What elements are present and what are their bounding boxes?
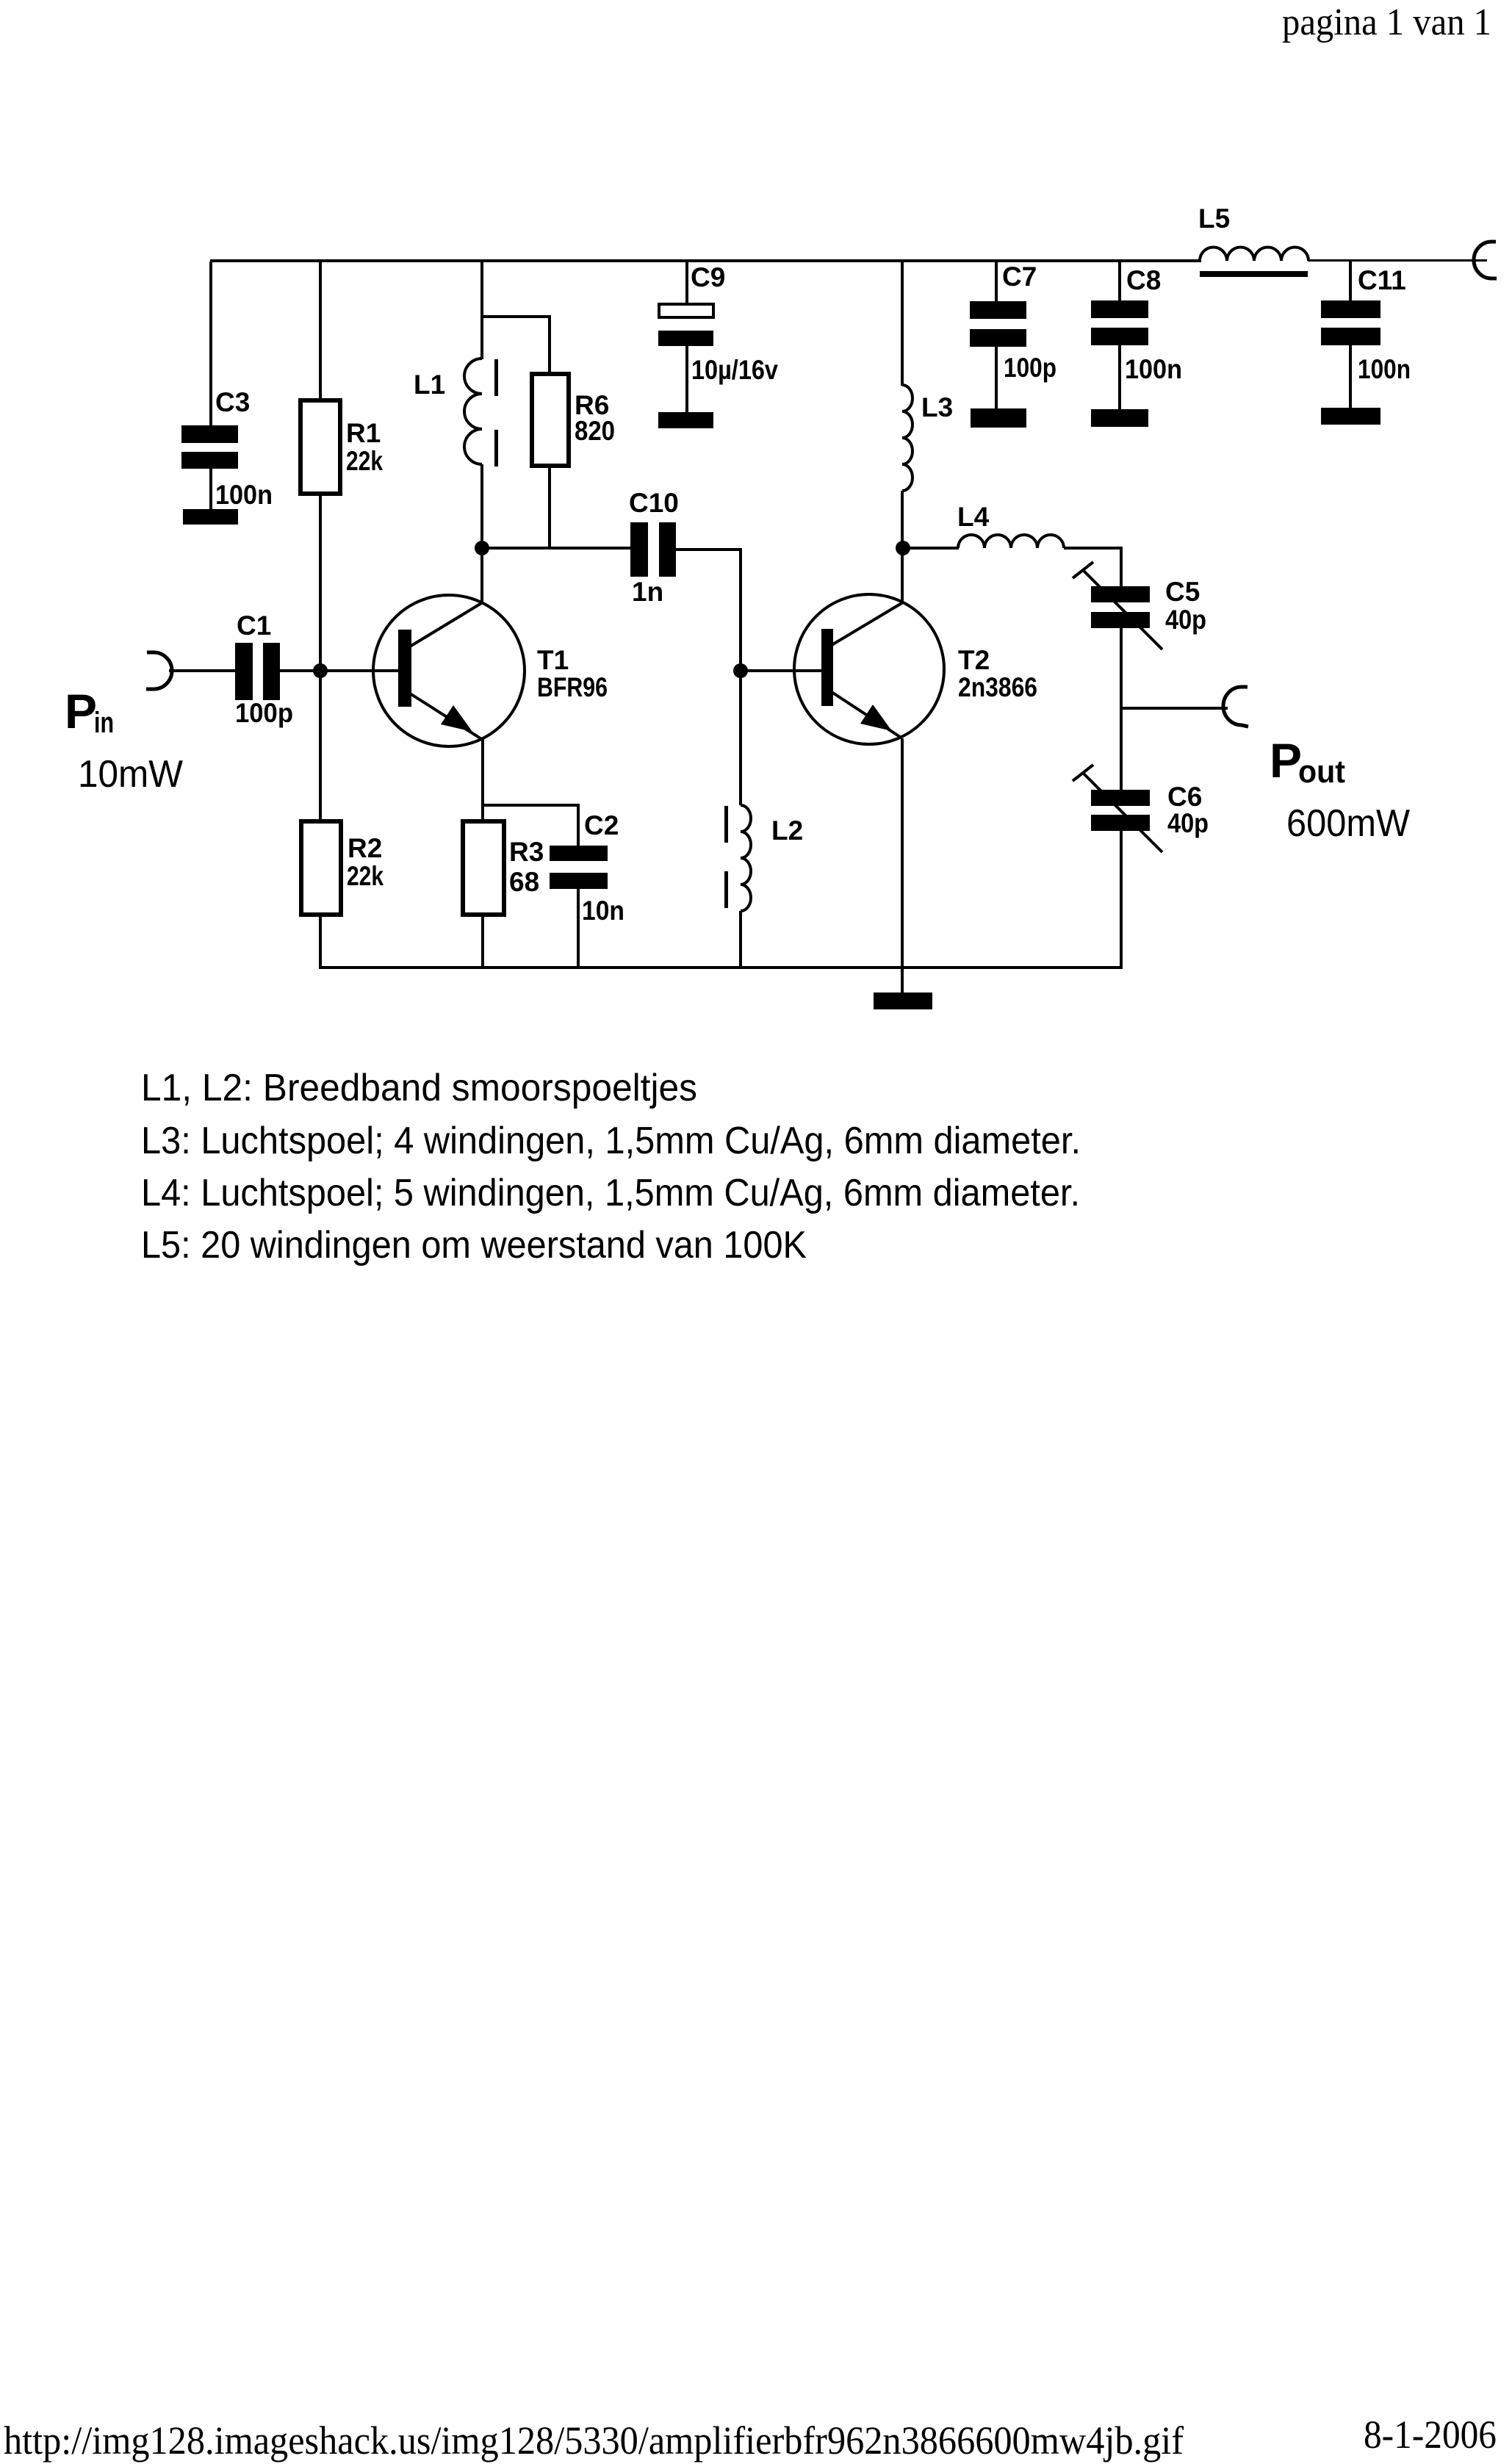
svg-text:L5: L5 [1198, 203, 1230, 234]
node A: C1/R1/R2/T1 base junction [313, 663, 328, 678]
svg-text:T1: T1 [537, 645, 569, 675]
transistor T2 2n3866 [794, 594, 1037, 744]
footer date [1364, 2413, 1497, 2457]
svg-text:L1: L1 [414, 370, 445, 400]
wire T1 emitter down [481, 739, 484, 821]
capacitor C3 [181, 262, 273, 510]
inductor L4 [903, 502, 1123, 550]
svg-text:820: 820 [575, 416, 615, 446]
svg-text:10n: 10n [582, 896, 624, 926]
svg-text:BFR96: BFR96 [537, 672, 608, 702]
node B: T1 collector junction [475, 541, 489, 555]
svg-text:C1: C1 [237, 610, 271, 641]
node D: T2 collector junction [896, 541, 910, 555]
wire top supply rail left segment [210, 259, 1201, 262]
capacitor C10 1n [629, 488, 679, 607]
svg-text:C11: C11 [1358, 265, 1406, 295]
svg-text:out: out [1298, 754, 1345, 790]
svg-text:C5: C5 [1165, 577, 1200, 607]
capacitor C7 100p [970, 262, 1056, 408]
inductor L2 [724, 671, 803, 968]
capacitor C1 100p [235, 610, 293, 728]
svg-text:L4: Luchtspoel; 5 windingen, 1: L4: Luchtspoel; 5 windingen, 1,5mm Cu/Ag… [141, 1172, 1080, 1214]
svg-text:L4: L4 [957, 502, 990, 532]
svg-text:10mW: 10mW [78, 753, 183, 796]
ground bar under C9 [658, 412, 713, 428]
trimmer capacitor C5 40p [1073, 562, 1206, 649]
wire C5 to output node [1120, 628, 1123, 709]
svg-text:http://img128.imageshack.us/im: http://img128.imageshack.us/img128/5330/… [4, 2418, 1184, 2463]
wire collector node to C10 [482, 547, 632, 550]
wire T2 emitter down to ground [901, 738, 904, 994]
svg-text:600mW: 600mW [1286, 802, 1410, 845]
inductor L1 [414, 262, 498, 548]
supply terminal arc top right [1474, 242, 1497, 278]
wire C6 to bottom rail [1120, 831, 1123, 969]
capacitor C8 100n [1091, 262, 1182, 409]
svg-text:L3: Luchtspoel; 4 windingen, 1: L3: Luchtspoel; 4 windingen, 1,5mm Cu/Ag… [141, 1120, 1081, 1162]
svg-text:L3: L3 [921, 392, 953, 422]
wire node to T2 base [741, 669, 821, 672]
wire top supply rail right segment [1308, 259, 1487, 262]
svg-text:in: in [94, 707, 114, 739]
resistor R1 22k [300, 262, 383, 821]
ground bar under C11 [1321, 408, 1380, 425]
wire T1 collector up [480, 548, 483, 604]
footer URL [4, 2418, 1184, 2463]
capacitor C9 10u/16v [658, 262, 778, 412]
svg-text:C6: C6 [1167, 782, 1202, 812]
capacitor C11 100n [1321, 262, 1411, 408]
svg-text:R1: R1 [346, 418, 381, 448]
transistor T1 BFR96 [373, 595, 608, 746]
ground bar under C7 [971, 408, 1026, 428]
capacitor C2 10n [482, 804, 624, 968]
resistor R6 820 [482, 315, 615, 548]
svg-text:P: P [1270, 733, 1302, 788]
wire L4 to C5 branch corner [1120, 548, 1123, 586]
svg-text:40p: 40p [1167, 808, 1209, 838]
svg-text:R2: R2 [348, 833, 382, 863]
wire bottom ground rail [319, 966, 1123, 969]
svg-text:100n: 100n [215, 480, 273, 510]
svg-text:40p: 40p [1165, 605, 1206, 635]
svg-text:100p: 100p [1004, 353, 1056, 383]
ground [874, 993, 932, 1009]
svg-text:C2: C2 [584, 810, 619, 840]
page header "pagina 1 van 1" [1282, 1, 1491, 43]
svg-text:10µ/16v: 10µ/16v [691, 355, 778, 385]
resistor R3 68 [463, 821, 544, 968]
svg-text:pagina 1 van 1: pagina 1 van 1 [1282, 1, 1491, 43]
svg-text:100n: 100n [1358, 354, 1411, 384]
svg-text:L1, L2: Breedband smoorspoeltj: L1, L2: Breedband smoorspoeltjes [141, 1067, 697, 1109]
svg-text:100n: 100n [1125, 354, 1182, 384]
svg-text:22k: 22k [346, 446, 383, 476]
ground bar under C3 [183, 509, 238, 525]
input terminal arc Pin [146, 652, 172, 689]
svg-text:C10: C10 [629, 488, 679, 518]
svg-text:C8: C8 [1126, 265, 1161, 295]
svg-text:22k: 22k [347, 861, 384, 891]
wire output node to terminal [1121, 707, 1228, 710]
svg-text:8-1-2006: 8-1-2006 [1364, 2413, 1497, 2457]
trimmer capacitor C6 40p [1073, 765, 1209, 852]
annotation text block [141, 1067, 1081, 1267]
svg-text:C9: C9 [691, 262, 725, 292]
svg-text:2n3866: 2n3866 [958, 672, 1037, 702]
resistor R2 22k [301, 821, 384, 968]
wire T2 collector up [901, 548, 904, 604]
svg-text:R3: R3 [509, 837, 544, 867]
wire input to C1 [169, 669, 235, 672]
Pin label [65, 684, 183, 796]
Pout label [1270, 733, 1410, 845]
svg-text:C7: C7 [1002, 262, 1037, 292]
inductor L3 [901, 262, 953, 548]
output terminal arc Pout [1223, 687, 1248, 727]
wire C10 to T2 base branch [676, 550, 741, 671]
svg-text:C3: C3 [215, 387, 250, 417]
node C: T2 base junction [733, 663, 748, 678]
svg-text:L2: L2 [771, 815, 803, 846]
inductor L5 [1198, 203, 1308, 277]
svg-text:100p: 100p [235, 698, 293, 728]
svg-text:T2: T2 [958, 645, 990, 675]
svg-text:P: P [65, 684, 97, 738]
svg-text:L5: 20 windingen om weerstand: L5: 20 windingen om weerstand van 100K [141, 1224, 807, 1267]
svg-text:1n: 1n [632, 577, 663, 607]
ground bar under C8 [1091, 409, 1148, 427]
wire output node to C6 [1120, 708, 1123, 790]
wire C1 to T1 base [280, 669, 398, 672]
svg-text:68: 68 [509, 867, 539, 897]
